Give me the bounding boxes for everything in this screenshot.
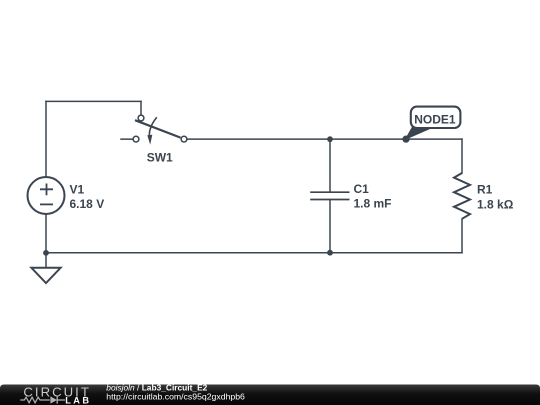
junction at NODE1 attach point	[402, 136, 409, 143]
junction at capacitor top	[327, 136, 333, 142]
wire switch right to top-right corner	[187, 138, 462, 140]
voltage source V1	[28, 177, 65, 214]
switch blade	[135, 120, 181, 137]
resistor R1	[454, 173, 470, 219]
wire switch left stub	[121, 138, 133, 140]
wire right vertical to resistor top	[461, 139, 463, 173]
svg-text:LAB: LAB	[65, 395, 91, 405]
svg-text:SW1: SW1	[147, 150, 173, 164]
switch left terminal	[133, 136, 139, 142]
svg-text:http://circuitlab.com/cs95q2gx: http://circuitlab.com/cs95q2gxdhpb6	[106, 392, 245, 402]
node NODE1 callout tail	[406, 127, 432, 139]
CircuitLab logo diode	[50, 396, 57, 403]
wire ground stub	[45, 253, 47, 267]
wire capacitor bottom lead	[329, 200, 331, 253]
svg-text:1.8 kΩ: 1.8 kΩ	[477, 198, 514, 212]
wire resistor bottom to bottom rail	[461, 219, 463, 253]
svg-text:C1: C1	[354, 182, 370, 196]
footer bar	[0, 385, 540, 405]
svg-text:V1: V1	[70, 183, 85, 197]
wire bottom rail	[46, 252, 462, 254]
switch SW1	[133, 115, 187, 145]
junction at capacitor bottom	[327, 250, 333, 256]
wire V1 bottom to bottom rail	[45, 214, 47, 253]
svg-text:NODE1: NODE1	[414, 112, 456, 126]
wire top-left horizontal	[46, 100, 141, 102]
junction at ground	[43, 250, 49, 256]
wire capacitor top lead	[329, 139, 331, 192]
capacitor C1	[310, 192, 349, 199]
switch action arrow	[149, 117, 156, 136]
node NODE1 callout box	[411, 107, 461, 128]
CircuitLab logo resistor zigzag	[20, 397, 50, 403]
ground	[31, 268, 60, 283]
svg-text:1.8 mF: 1.8 mF	[354, 197, 392, 211]
wire left vertical to V1 top	[45, 101, 47, 177]
switch right terminal	[181, 136, 187, 142]
switch top terminal	[138, 115, 144, 121]
wire down to switch top terminal	[140, 101, 142, 114]
svg-text:6.18 V: 6.18 V	[70, 197, 105, 211]
svg-text:R1: R1	[477, 183, 493, 197]
